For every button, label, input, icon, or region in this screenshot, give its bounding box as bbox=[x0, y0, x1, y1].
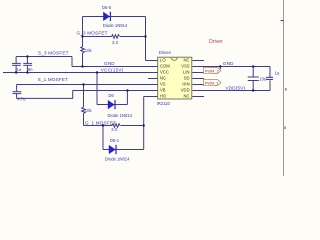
svg-text:D6-1: D6-1 bbox=[110, 138, 120, 143]
resistor R 10k upper vertical bbox=[82, 37, 84, 47]
port PWM_2 bbox=[204, 68, 222, 74]
wire: HIN stub bbox=[192, 84, 204, 86]
wire: LO pin wire bbox=[146, 60, 159, 62]
svg-text:VDD(5V): VDD(5V) bbox=[226, 86, 246, 91]
svg-text:Driver: Driver bbox=[209, 39, 223, 45]
svg-text:NC: NC bbox=[184, 57, 190, 62]
wire: S_3 cap rail bbox=[16, 56, 72, 58]
wire: NC right top stub bbox=[192, 60, 204, 62]
wire: top loop left vertical bbox=[82, 17, 84, 37]
svg-text:NC: NC bbox=[184, 93, 190, 98]
svg-text:3.3: 3.3 bbox=[111, 127, 117, 132]
svg-text:3.3: 3.3 bbox=[112, 40, 118, 45]
wire: GND rail bbox=[72, 66, 158, 68]
capacitor C5 1u bbox=[266, 77, 273, 79]
IC U1 IR2110 body bbox=[158, 57, 192, 99]
svg-text:VB: VB bbox=[160, 87, 166, 92]
capacitor C1 1u bbox=[15, 57, 17, 64]
svg-text:G_3 MOSFET: G_3 MOSFET bbox=[77, 31, 108, 36]
svg-text:Driven: Driven bbox=[159, 50, 172, 55]
svg-text:Diode 1N814: Diode 1N814 bbox=[105, 157, 130, 162]
capacitor C4 10u bbox=[252, 67, 254, 77]
svg-text:PWM_2: PWM_2 bbox=[205, 69, 220, 74]
svg-text:Diode 1N914: Diode 1N914 bbox=[103, 23, 128, 28]
wire: NC left stub bbox=[148, 78, 158, 80]
wire: SD stub bbox=[192, 78, 204, 80]
svg-text:1u: 1u bbox=[17, 67, 22, 72]
svg-text:10k: 10k bbox=[85, 48, 93, 53]
wire: D6-1 left vertical bbox=[102, 126, 104, 150]
wire: VB wire bbox=[73, 90, 159, 92]
wire: gate G_3 horizontal bbox=[83, 36, 112, 38]
wire: bootstrap diode branch left vertical bbox=[96, 73, 98, 105]
resistor R 3.3 lower bbox=[112, 124, 120, 128]
svg-text:VSS: VSS bbox=[181, 63, 190, 68]
wire: G_1 gate wire bbox=[84, 125, 113, 127]
port PWM_1 bbox=[204, 80, 222, 86]
wire: top loop right vertical down to LO bbox=[145, 17, 147, 61]
svg-text:S_1 MOSFET: S_1 MOSFET bbox=[38, 77, 69, 82]
wire: D6 wire bbox=[97, 104, 127, 106]
diode D5-5 bbox=[103, 12, 110, 21]
svg-text:4.7u: 4.7u bbox=[17, 97, 26, 102]
wire: S_3 rail drop to GND rail bbox=[71, 57, 73, 67]
svg-text:1u: 1u bbox=[275, 71, 280, 76]
wire: VDD wire bbox=[192, 90, 270, 92]
capacitor C2 8n bbox=[26, 57, 28, 64]
svg-text:LIN: LIN bbox=[183, 69, 190, 74]
svg-text:SD: SD bbox=[184, 75, 190, 80]
svg-text:S_3 MOSFET: S_3 MOSFET bbox=[38, 51, 69, 56]
svg-text:VCC: VCC bbox=[160, 69, 169, 74]
svg-text:NC: NC bbox=[160, 75, 166, 80]
svg-text:LO: LO bbox=[160, 57, 166, 62]
wire: NC right bottom stub bbox=[192, 96, 204, 98]
svg-text:IR2110: IR2110 bbox=[157, 101, 171, 106]
svg-text:10k: 10k bbox=[85, 108, 93, 113]
diode D6-1 bbox=[109, 145, 116, 154]
wire: right loop vertical bbox=[269, 67, 271, 78]
wire: HO pin wire bbox=[144, 96, 159, 98]
sheet edge vertical line bbox=[283, 0, 285, 176]
svg-text:G_1 MOSFET: G_1 MOSFET bbox=[85, 121, 116, 126]
wire: LIN stub bbox=[192, 72, 204, 74]
wire: port junction tick bbox=[219, 67, 221, 70]
wire: VCC(15V) rail bbox=[3, 72, 158, 74]
wire: bootstrap cap bottom run bbox=[17, 91, 73, 99]
capacitor C3 4.7u bbox=[16, 85, 18, 92]
IC pin names right bbox=[181, 57, 190, 98]
svg-text:HIN: HIN bbox=[182, 81, 189, 86]
edge mark 1 bbox=[285, 88, 287, 91]
svg-text:Diode 1N814: Diode 1N814 bbox=[108, 113, 133, 118]
svg-text:VS: VS bbox=[160, 81, 166, 86]
svg-text:10u: 10u bbox=[259, 77, 267, 82]
svg-text:GND: GND bbox=[223, 61, 234, 66]
svg-text:VDD: VDD bbox=[181, 87, 190, 92]
svg-text:8n: 8n bbox=[28, 67, 33, 72]
wire: D6-1 wire bbox=[103, 149, 144, 151]
wire: S_1 rail to VS bbox=[17, 84, 159, 86]
wire: top diode loop horizontal bbox=[83, 16, 146, 18]
svg-text:HO: HO bbox=[160, 93, 167, 98]
wire: HO vertical down bbox=[143, 97, 145, 150]
resistor R 3.3 top bbox=[112, 35, 120, 39]
wire: D6 right vertical up to VB bbox=[126, 91, 128, 105]
svg-text:VCC(15V): VCC(15V) bbox=[101, 68, 124, 73]
IC pin names left bbox=[160, 57, 170, 98]
svg-text:D6: D6 bbox=[108, 93, 114, 98]
diode D6 bbox=[108, 100, 115, 109]
svg-text:PWM_1: PWM_1 bbox=[205, 81, 220, 86]
wire: VSS to GND right wire bbox=[192, 66, 270, 68]
svg-text:D5-5: D5-5 bbox=[102, 5, 112, 10]
wire: edge tick top bbox=[281, 20, 284, 22]
svg-text:COM: COM bbox=[160, 63, 170, 68]
resistor R 10k lower vertical bbox=[83, 85, 85, 108]
svg-text:GND: GND bbox=[104, 61, 115, 66]
edge mark 2 bbox=[284, 127, 286, 130]
